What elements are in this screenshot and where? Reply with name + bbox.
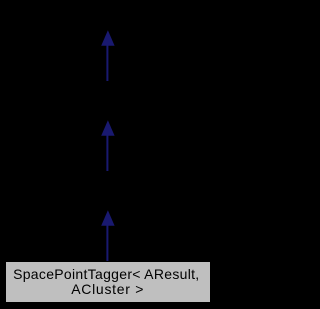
svg-text:ACluster >: ACluster > (71, 281, 144, 297)
svg-text:SpacePointTagger< AResult,: SpacePointTagger< AResult, (13, 266, 199, 282)
